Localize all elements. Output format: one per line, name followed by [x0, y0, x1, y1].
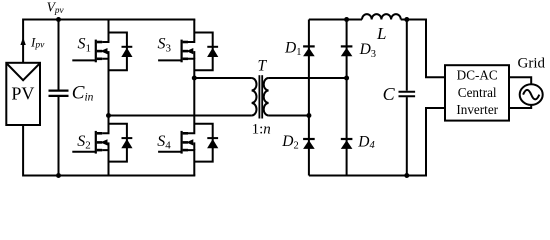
svg-text:Inverter: Inverter — [456, 102, 498, 117]
svg-text:S4: S4 — [157, 133, 171, 152]
svg-text:S1: S1 — [78, 36, 92, 55]
svg-text:1:n: 1:n — [252, 121, 271, 137]
svg-text:D2: D2 — [281, 133, 298, 152]
svg-text:Ipv: Ipv — [30, 34, 45, 50]
transformer T secondary winding — [264, 78, 269, 116]
wire rectifier right leg — [346, 20, 348, 176]
wire rectifier top rail — [309, 19, 362, 21]
svg-text:D4: D4 — [357, 133, 375, 151]
wire transformer secondary bottom lead — [269, 115, 309, 117]
svg-text:S3: S3 — [158, 36, 172, 55]
diode D2 — [303, 139, 315, 149]
svg-text:Grid: Grid — [518, 56, 546, 72]
wire capacitor C top branch — [406, 20, 408, 91]
diode D3 — [341, 46, 353, 56]
wire Cin top branch — [58, 20, 60, 91]
wire rectifier left leg — [308, 20, 310, 176]
node Vpv junction dot — [56, 17, 61, 22]
wire transformer primary bottom lead — [109, 115, 252, 117]
label DC-AC Central Inverter — [456, 68, 498, 118]
capacitor C — [399, 92, 416, 97]
svg-text:PV: PV — [11, 84, 34, 104]
svg-text:DC-AC: DC-AC — [457, 68, 498, 83]
wire Cin bottom branch — [58, 97, 60, 176]
node filter cap top junction dot — [404, 17, 409, 22]
node secondary to right leg junction dot — [344, 76, 349, 81]
inductor L — [362, 14, 401, 19]
node rectifier top rail junction dot — [344, 17, 349, 22]
svg-text:D1: D1 — [284, 40, 301, 58]
node left bridge midpoint junction dot — [106, 113, 111, 118]
svg-text:Cin: Cin — [72, 82, 94, 103]
svg-text:T: T — [257, 57, 267, 74]
wire bottom rail from PV to bridge — [23, 125, 195, 176]
svg-text:D3: D3 — [359, 41, 376, 60]
wire inverter to grid top — [509, 77, 531, 84]
transistor S2 (MOSFET with body diode) — [72, 116, 132, 176]
wire capacitor C bottom branch — [406, 97, 408, 175]
node right bridge midpoint junction dot — [192, 76, 197, 81]
transistor S1 (MOSFET with body diode) — [72, 20, 132, 116]
wire inductor to inverter top input — [401, 20, 445, 78]
transformer T core — [259, 75, 262, 118]
wire inverter to grid bottom — [509, 105, 531, 108]
diode D4 — [341, 139, 353, 149]
diode D1 — [303, 46, 315, 56]
node secondary to left leg junction dot — [306, 113, 311, 118]
transistor S4 (MOSFET with body diode) — [158, 116, 218, 176]
arrow Ipv current direction — [20, 37, 25, 45]
node Cin bottom junction dot — [56, 173, 61, 178]
svg-text:C: C — [383, 84, 396, 104]
transistor S3 (MOSFET with body diode) — [158, 20, 218, 116]
svg-text:S2: S2 — [77, 133, 91, 152]
AC source grid symbol — [520, 84, 543, 105]
capacitor Cin — [49, 91, 69, 96]
transformer T primary winding — [252, 78, 257, 116]
svg-text:Vpv: Vpv — [47, 0, 65, 15]
svg-text:Central: Central — [458, 85, 497, 100]
svg-text:L: L — [376, 24, 386, 43]
node filter cap bottom junction dot — [404, 173, 409, 178]
wire top rail from PV to bridge — [23, 20, 195, 63]
wire transformer secondary top lead — [269, 77, 347, 79]
photovoltaic source PV — [6, 63, 40, 125]
wire rectifier bottom rail — [309, 108, 445, 176]
block DC-AC central inverter — [445, 65, 509, 120]
wire transformer primary top lead — [194, 77, 251, 79]
